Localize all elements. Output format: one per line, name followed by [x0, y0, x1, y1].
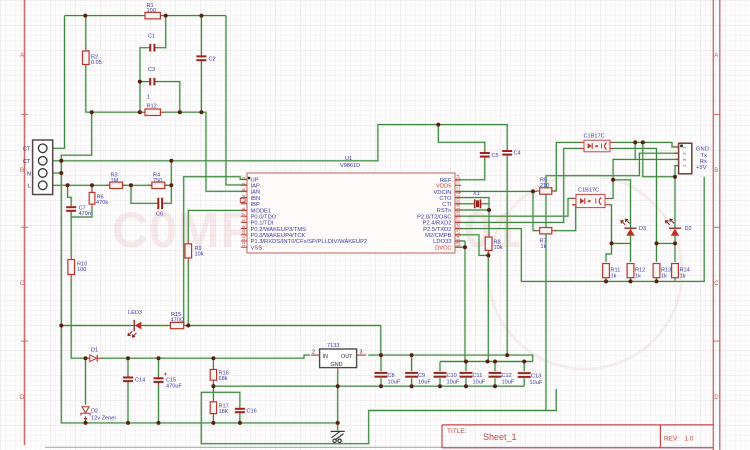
capacitor C6 [155, 198, 165, 218]
svg-text:A: A [714, 53, 718, 59]
wire D1 row to 7133 IN [102, 355, 310, 358]
wire opto1 left dot column [634, 142, 636, 159]
svg-text:LDO33: LDO33 [433, 239, 451, 245]
svg-text:C12: C12 [502, 373, 512, 379]
svg-text:8: 8 [241, 219, 246, 222]
wire R12 row right [164, 112, 248, 191]
wire N stub [53, 172, 62, 174]
resistor R11 [603, 264, 621, 280]
svg-text:C16: C16 [247, 409, 257, 415]
watermark text [112, 202, 521, 258]
svg-text:12v Zener: 12v Zener [91, 416, 116, 422]
svg-text:P0.1/TDI: P0.1/TDI [251, 221, 274, 227]
wire X1 left lead [455, 203, 471, 205]
svg-text:P0.0/TDO: P0.0/TDO [251, 214, 277, 220]
wire D3 bottom to R12 [630, 236, 632, 262]
svg-text:24: 24 [456, 174, 461, 180]
frame left ticks [21, 114, 28, 341]
wire row 325 right [186, 325, 381, 327]
wire R4 right [165, 184, 171, 186]
capacitor C4 [502, 148, 520, 157]
wire M2 CMPB [455, 235, 488, 256]
capacitor C1 [147, 34, 158, 52]
wire opto1 R1 to conn pin1 [614, 142, 679, 147]
svg-text:1k: 1k [611, 274, 617, 280]
capacitor C13 [518, 373, 543, 386]
capacitor C8 [375, 373, 401, 386]
wire C16 branch [213, 392, 240, 423]
wire C1 left to C3 left column [140, 48, 148, 113]
svg-text:10uF: 10uF [473, 380, 486, 386]
wire C12 leads [494, 362, 496, 387]
wire C5 branch [438, 125, 485, 151]
svg-text:B: B [20, 168, 24, 174]
wire P2.0 row [455, 198, 573, 216]
svg-text:TITLE:: TITLE: [447, 428, 467, 435]
svg-text:C1B17C: C1B17C [584, 134, 605, 140]
wire R6 bottom jog [71, 206, 92, 217]
svg-text:C11: C11 [473, 373, 483, 379]
svg-text:U1: U1 [345, 156, 352, 162]
wire C13 leads [523, 362, 525, 387]
wire row 325 mid [145, 325, 169, 327]
svg-text:GND: GND [331, 362, 343, 368]
svg-text:P2.5/TXD2: P2.5/TXD2 [423, 227, 451, 233]
svg-text:1k: 1k [661, 274, 667, 280]
wire out row1 [368, 355, 532, 361]
wire CT2 bus [53, 125, 508, 161]
wire RSTn row [455, 209, 489, 211]
svg-text:10: 10 [241, 229, 246, 235]
svg-text:18K: 18K [219, 409, 229, 415]
wire D2 bottom to R14 [674, 236, 676, 262]
svg-text:C: C [714, 281, 719, 287]
wire zener bottom [85, 416, 87, 423]
svg-text:10uF: 10uF [418, 380, 431, 386]
resistor R4 [149, 173, 168, 189]
svg-text:10uF: 10uF [502, 380, 515, 386]
svg-text:10uF: 10uF [388, 380, 401, 386]
svg-text:C14: C14 [135, 378, 145, 384]
svg-text:GND: GND [696, 147, 709, 153]
LED LED3 [128, 310, 145, 337]
wire Rx row [609, 159, 679, 198]
wire row2 [440, 361, 533, 363]
wire UP pin [184, 177, 247, 326]
wire R3-R4 row [123, 184, 152, 186]
wire opto1 R2 to R13 [614, 148, 657, 262]
wire DVCC LDO33 [455, 241, 465, 362]
svg-text:4: 4 [682, 164, 688, 167]
svg-text:P0.3/WAKEUP4/TCK: P0.3/WAKEUP4/TCK [251, 233, 306, 239]
resistor R12 [141, 95, 164, 116]
frame left letters [20, 53, 25, 401]
capacitor C3 [147, 67, 158, 85]
wire gnd row caps [213, 385, 524, 387]
wire Tx long column [546, 153, 679, 410]
svg-text:1: 1 [147, 95, 150, 101]
watermark circle right [488, 175, 682, 369]
wire C1 right lead to top bus [157, 16, 166, 48]
svg-text:D2: D2 [685, 226, 692, 232]
wire gnd net left drop [201, 392, 546, 443]
svg-text:C6: C6 [156, 212, 163, 218]
resistor R7 [536, 228, 555, 251]
svg-text:10k: 10k [494, 245, 503, 251]
svg-text:2: 2 [312, 350, 315, 356]
svg-text:1: 1 [241, 176, 246, 179]
resistor R1 [141, 3, 164, 19]
svg-text:19: 19 [456, 204, 461, 210]
wire opto2 R2 to R11 [606, 205, 612, 262]
svg-text:9: 9 [241, 225, 246, 228]
wire R7 right to opto2 L2 [554, 205, 576, 231]
LED D3 [621, 219, 646, 236]
wire CTO X1 column [455, 198, 489, 235]
svg-text:DVCC: DVCC [435, 245, 451, 251]
IC U1 V9861D [241, 156, 461, 253]
svg-text:1: 1 [682, 146, 688, 149]
svg-text:R12: R12 [147, 104, 157, 110]
svg-text:2: 2 [241, 182, 246, 185]
svg-text:C8: C8 [388, 373, 395, 379]
wire C4 bottom column [506, 157, 508, 356]
capacitor C14 [123, 375, 145, 385]
wire C2 top lead [200, 16, 202, 54]
svg-text:C2: C2 [209, 57, 216, 63]
frame left border [24, 0, 26, 445]
optocoupler U3 C1B17C [572, 188, 609, 208]
wire 7133 gnd column [337, 372, 339, 431]
capacitor C16 [235, 406, 257, 415]
wire R2 bottom to R12 row [86, 65, 142, 112]
svg-text:470n: 470n [79, 211, 91, 217]
svg-text:LED3: LED3 [128, 310, 142, 316]
resistor R3 [107, 173, 126, 189]
svg-text:7133: 7133 [327, 343, 339, 349]
svg-text:23: 23 [456, 179, 461, 185]
svg-text:3: 3 [360, 350, 363, 356]
svg-text:1k: 1k [635, 274, 641, 280]
wire R17 bottom [212, 416, 214, 423]
svg-text:100: 100 [77, 267, 86, 273]
wire MODE1 row [188, 210, 247, 241]
svg-text:7: 7 [241, 213, 246, 216]
svg-text:REV: 1.0: REV: 1.0 [664, 436, 694, 443]
capacitor C10 [434, 373, 460, 386]
svg-text:100: 100 [147, 8, 156, 14]
wire P2.5 to rail [455, 177, 704, 282]
capacitor C7 [66, 204, 91, 217]
resistor R12b [627, 264, 645, 280]
LED D2 [666, 219, 692, 236]
wire pin1 drop to D2 top [643, 142, 675, 176]
svg-text:C3: C3 [148, 67, 155, 73]
svg-text:OUT: OUT [341, 354, 353, 360]
svg-text:18: 18 [456, 210, 461, 216]
resistor R16 [210, 366, 229, 383]
svg-text:IBP: IBP [251, 202, 260, 208]
wire C9 leads [411, 355, 413, 386]
wire +5V pin [675, 166, 679, 228]
resistor R13 [653, 264, 671, 280]
svg-text:20: 20 [456, 198, 461, 204]
svg-text:P0.2/WAKEUP3/TMS: P0.2/WAKEUP3/TMS [251, 227, 307, 233]
wire C6 right up to R4 [165, 185, 171, 203]
svg-text:C9: C9 [418, 373, 425, 379]
wire R16 to R17 [212, 383, 214, 399]
wire D3 bottom tie [612, 242, 631, 244]
wire C7 column from L row [68, 185, 72, 204]
capacitor C12 [489, 373, 515, 386]
svg-text:17: 17 [456, 216, 461, 222]
title block [442, 425, 713, 448]
svg-text:C1B17C: C1B17C [578, 188, 599, 194]
svg-text:470uF: 470uF [166, 384, 182, 390]
svg-text:22: 22 [456, 186, 461, 192]
svg-text:470k: 470k [96, 200, 108, 206]
title text [447, 428, 694, 443]
svg-text:14: 14 [456, 235, 461, 241]
svg-text:6: 6 [241, 207, 246, 210]
svg-text:D1: D1 [91, 348, 98, 354]
svg-text:D: D [20, 395, 25, 401]
wire C2 bottom lead [200, 63, 202, 112]
wire C6 branch left [131, 185, 156, 203]
regulator 7133 [311, 343, 366, 372]
svg-text:C1: C1 [148, 34, 155, 40]
wire R16 top [212, 358, 214, 367]
svg-text:1k: 1k [680, 274, 686, 280]
frame bottom line [45, 446, 713, 448]
capacitor C2 [196, 53, 215, 63]
svg-text:RSTn: RSTn [437, 208, 452, 214]
wire C14 leads [127, 358, 129, 423]
connector CN1 [23, 140, 53, 195]
wire CT1 column [53, 16, 65, 149]
svg-text:C: C [20, 281, 25, 287]
wire R12row to CT2 link [61, 112, 91, 161]
wire opto1 L1 to R5 right [554, 142, 580, 191]
resistor R17 [210, 399, 229, 417]
resistor R8 [485, 234, 503, 253]
svg-text:CTO: CTO [439, 196, 452, 202]
crystal X1 [470, 191, 485, 208]
node IBP marker [240, 198, 245, 202]
svg-text:IAN: IAN [251, 190, 261, 196]
resistor R2 [83, 48, 102, 66]
wire R9 bottom [187, 261, 189, 326]
svg-text:VSS: VSS [251, 245, 263, 251]
ground symbol [331, 431, 345, 442]
svg-text:2: 2 [682, 152, 688, 155]
frame right ticks [713, 114, 720, 341]
wire C5 bottom to REF [455, 158, 485, 179]
capacitor C9 [405, 373, 431, 386]
svg-text:P2.0/T2/OSC: P2.0/T2/OSC [417, 214, 451, 220]
wire top bus left of R1 [65, 15, 143, 17]
frame right double border [712, 0, 714, 450]
svg-text:P1.3/RXDS/INT0/CFx/SP/PLLDIV/W: P1.3/RXDS/INT0/CFx/SP/PLLDIV/WAKEUP2 [251, 239, 368, 245]
svg-text:3: 3 [241, 188, 246, 191]
wire R10 bottom to D1 row [71, 279, 87, 359]
wire row325 drop to out row [380, 326, 382, 356]
svg-text:IN: IN [323, 354, 328, 360]
wire VDCIN row to R5 left [455, 190, 537, 192]
resistor R14 [672, 264, 690, 280]
svg-text:16: 16 [456, 223, 461, 229]
svg-text:C5: C5 [492, 153, 499, 159]
svg-text:X1: X1 [473, 191, 480, 197]
wire R5R7 left link [533, 191, 537, 230]
svg-text:68k: 68k [219, 376, 228, 382]
diode D1 [85, 348, 102, 362]
resistor R10 [68, 256, 87, 279]
wire C10 leads [439, 362, 441, 387]
wire C7 to R10 [70, 214, 72, 257]
wire C8 leads [380, 355, 382, 386]
svg-text:3: 3 [682, 158, 688, 161]
capacitor C15 [154, 373, 183, 390]
connector CN2 [675, 143, 709, 174]
svg-text:1M: 1M [111, 178, 119, 184]
svg-text:10uF: 10uF [530, 380, 543, 386]
wire top bus right of R1 [164, 15, 227, 17]
svg-text:Tx: Tx [701, 153, 708, 159]
resistor R5 [536, 178, 556, 195]
svg-text:IBN: IBN [251, 196, 261, 202]
wire X1 right lead [484, 203, 489, 205]
wire C11 leads [465, 362, 467, 387]
zener D2z [81, 407, 116, 422]
svg-text:1k: 1k [541, 244, 547, 250]
svg-text:C4: C4 [514, 151, 521, 157]
svg-text:Sheet_1: Sheet_1 [483, 432, 517, 442]
svg-text:13: 13 [456, 241, 461, 247]
svg-text:VDD5: VDD5 [436, 184, 451, 190]
optocoupler U2 C1B17C [580, 134, 614, 152]
svg-text:L: L [28, 184, 31, 190]
wire row 325 left [61, 325, 131, 327]
wire C3 right to R12 row [157, 82, 180, 113]
wire R6 top [91, 185, 93, 190]
svg-text:4: 4 [241, 194, 246, 197]
svg-text:470Ω: 470Ω [171, 318, 185, 324]
svg-text:10k: 10k [195, 252, 204, 258]
svg-text:15: 15 [456, 229, 461, 235]
wire R11-R14 bottoms [606, 278, 675, 282]
svg-text:D2: D2 [91, 409, 98, 415]
resistor R6 [89, 190, 108, 208]
svg-text:P2.4/RXD2: P2.4/RXD2 [423, 221, 452, 227]
svg-text:0.05: 0.05 [91, 60, 102, 66]
svg-text:Rx: Rx [700, 159, 707, 165]
svg-text:+5V: +5V [696, 165, 707, 171]
wire R8 bottom [487, 252, 489, 362]
wire N big left column [61, 161, 337, 423]
wire D2 bottom tie [657, 242, 676, 244]
svg-text:210: 210 [540, 183, 549, 189]
svg-text:B: B [714, 168, 718, 174]
svg-text:N: N [27, 171, 31, 177]
svg-text:D3: D3 [639, 226, 646, 232]
svg-text:V9861D: V9861D [340, 163, 360, 169]
wire C15 leads [158, 358, 160, 423]
wire C3 left lead [140, 81, 148, 83]
svg-text:CT: CT [23, 147, 31, 153]
wire IAP column [226, 16, 247, 185]
svg-text:10uF: 10uF [447, 380, 460, 386]
svg-text:C10: C10 [447, 373, 457, 379]
wire stray stub [546, 389, 556, 411]
svg-text:12: 12 [241, 241, 246, 247]
svg-text:M2/CMPB: M2/CMPB [425, 233, 452, 239]
resistor R9 [185, 241, 204, 262]
svg-text:CTI: CTI [442, 202, 452, 208]
resistor R15 [167, 312, 187, 329]
capacitor C5 [480, 150, 499, 159]
frame right letters [714, 53, 719, 401]
svg-text:C13: C13 [531, 374, 541, 380]
capacitor C11 [460, 373, 486, 386]
wire D3 top branch [613, 180, 630, 228]
wire CT2 to R4 link [170, 161, 172, 186]
svg-text:750: 750 [153, 178, 162, 184]
svg-text:11: 11 [241, 235, 246, 240]
svg-text:21: 21 [456, 192, 461, 198]
svg-text:CT: CT [23, 159, 31, 165]
wire R2 top lead column [85, 16, 87, 49]
wire P2.4 row [455, 148, 580, 222]
svg-text:A: A [20, 53, 24, 59]
wire zener top [85, 358, 87, 405]
svg-text:D: D [714, 395, 719, 401]
wire L row [53, 184, 110, 186]
